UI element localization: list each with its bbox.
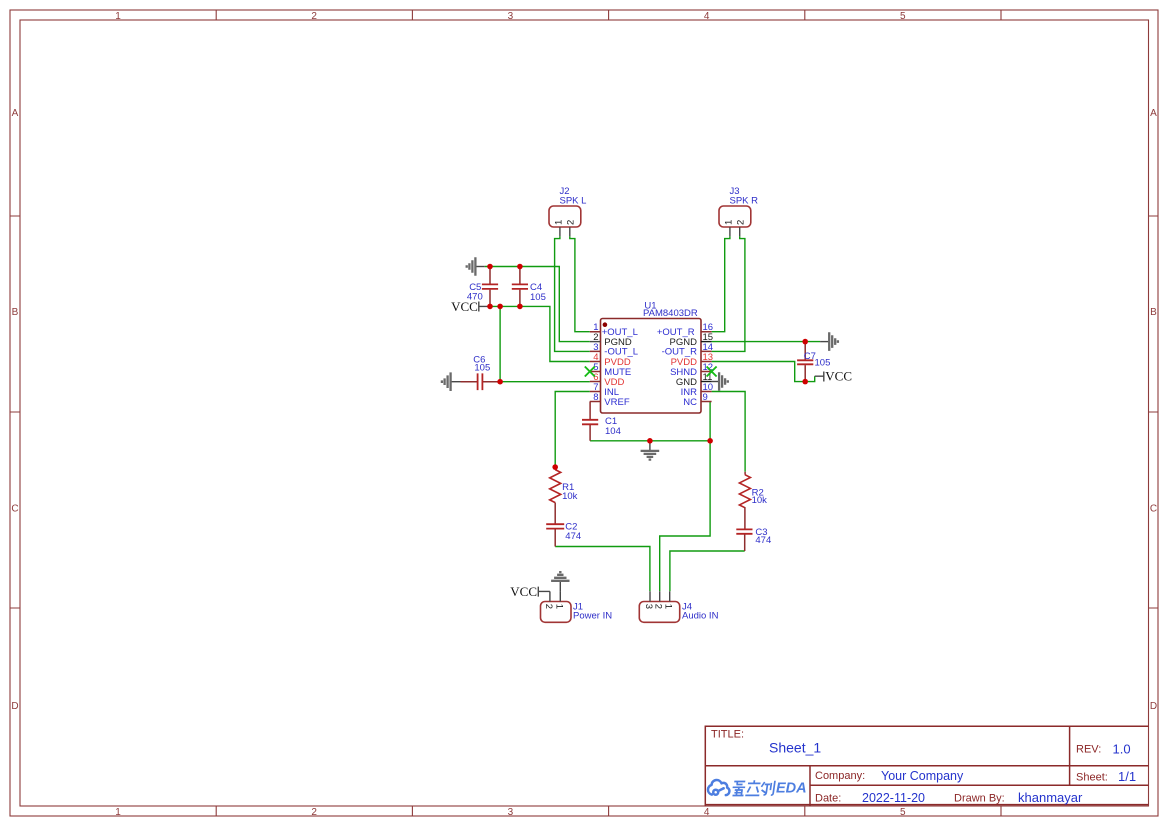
title block logo cell divider <box>809 766 811 807</box>
svg-text:Date:: Date: <box>815 792 841 804</box>
svg-text:9: 9 <box>703 392 708 403</box>
svg-text:NC: NC <box>683 397 697 408</box>
junction C4 top <box>517 264 523 270</box>
VCC port at J1 <box>510 584 550 599</box>
svg-text:8: 8 <box>593 392 598 403</box>
svg-text:105: 105 <box>815 358 831 369</box>
svg-text:2022-11-20: 2022-11-20 <box>862 791 925 805</box>
wire C1 bottom gnd net <box>590 440 710 442</box>
svg-text:105: 105 <box>530 292 546 303</box>
svg-text:2: 2 <box>566 220 577 225</box>
VCC port left <box>451 299 490 314</box>
ground top-left (pointing left) <box>467 257 485 276</box>
svg-text:10k: 10k <box>562 491 578 502</box>
J3 pin 2 stub <box>739 227 741 236</box>
svg-text:105: 105 <box>474 363 490 374</box>
capacitor C4 <box>512 267 546 307</box>
wire J2 pin2 to pin1 +OUT_L <box>570 236 590 331</box>
svg-text:VCC: VCC <box>825 369 852 384</box>
svg-text:D: D <box>11 701 18 712</box>
wire pin15 PGND to gnd right <box>712 341 821 343</box>
svg-text:REV:: REV: <box>1076 744 1101 756</box>
junction C7 bottom <box>802 379 808 385</box>
svg-text:C: C <box>11 504 18 515</box>
wire J3 pin2 to pin14 -OUT_R <box>712 236 745 351</box>
J2 body <box>549 206 581 227</box>
svg-text:474: 474 <box>755 535 771 546</box>
capacitor C7 <box>797 342 830 382</box>
ground below C1 (pointing down) <box>641 441 660 460</box>
J3 body <box>719 206 751 227</box>
IC U1 PAM8403DR <box>585 300 717 413</box>
wire VCC rail to pin4 PVDD <box>490 306 590 361</box>
U1 pin5 no-connect X <box>585 367 595 377</box>
U1 pin2 stub (black) <box>590 341 601 343</box>
logo JLCEDA cloud icon <box>708 780 729 795</box>
svg-text:3: 3 <box>508 807 514 818</box>
svg-text:Sheet:: Sheet: <box>1076 772 1108 784</box>
wire C6 node to pin6 VDD <box>500 381 590 383</box>
junction VCC-C6 branch <box>497 304 503 310</box>
svg-text:SPK R: SPK R <box>730 195 759 206</box>
svg-text:10k: 10k <box>752 495 768 506</box>
J2 pin 1 stub <box>559 227 561 236</box>
connector J1 Power IN <box>541 591 613 622</box>
svg-text:A: A <box>1150 108 1157 119</box>
junction C7 top <box>802 339 808 345</box>
svg-text:1: 1 <box>723 220 734 225</box>
junction gnd net below C1 <box>647 438 653 444</box>
J1 body <box>541 602 572 623</box>
capacitor C5 <box>467 267 498 307</box>
J4 pin 3 stub <box>649 591 651 601</box>
title block REV column divider <box>1069 726 1071 785</box>
logo text 嘉立创 (approximated glyph strokes) <box>731 780 775 795</box>
junction C6 node <box>497 379 503 385</box>
svg-text:B: B <box>1150 307 1157 318</box>
J4 pin 2 stub <box>659 591 661 601</box>
wire J2 pin1 to pin3 -OUT_L <box>555 236 590 351</box>
svg-text:1: 1 <box>663 604 674 609</box>
svg-text:2: 2 <box>543 604 554 609</box>
svg-text:B: B <box>12 307 19 318</box>
capacitor C3 <box>736 527 771 551</box>
junction R1 top <box>552 464 558 470</box>
wire gnd rail top-left to pin2 PGND <box>485 267 590 342</box>
ground at C6 (pointing left) <box>442 372 461 391</box>
J1 pin 1 stub <box>559 591 561 601</box>
svg-text:4: 4 <box>704 807 710 818</box>
svg-text:SPK L: SPK L <box>560 195 587 206</box>
svg-text:Drawn By:: Drawn By: <box>954 792 1005 804</box>
U1 left pin stubs <box>590 332 601 402</box>
J2 pin 2 stub <box>569 227 571 236</box>
U1 body <box>601 319 702 414</box>
J4 body <box>639 602 679 623</box>
svg-text:2: 2 <box>311 11 317 22</box>
capacitor C2 <box>546 522 581 547</box>
wire C3 bottom to J4 pin1 <box>670 551 745 591</box>
svg-text:EDA: EDA <box>776 781 807 797</box>
capacitor C1 <box>582 402 621 441</box>
svg-text:1: 1 <box>553 220 564 225</box>
column ticks top <box>216 10 1001 20</box>
svg-text:A: A <box>12 108 19 119</box>
svg-text:Audio IN: Audio IN <box>682 611 719 622</box>
wire pin10 INR down to R2 <box>712 392 746 472</box>
connector J3 SPK R <box>719 186 758 236</box>
wire VCC rail to C6 node <box>499 306 501 381</box>
junction dots <box>487 264 808 470</box>
svg-text:1: 1 <box>553 604 564 609</box>
title block bottom line <box>705 804 1148 806</box>
resistor R1 <box>550 467 578 523</box>
wire J3 pin1 to pin16 +OUT_R <box>712 236 730 331</box>
svg-text:VCC: VCC <box>510 584 537 599</box>
svg-text:Company:: Company: <box>815 770 865 782</box>
svg-text:5: 5 <box>900 807 906 818</box>
svg-text:1/1: 1/1 <box>1118 769 1136 784</box>
svg-text:474: 474 <box>565 531 581 542</box>
junction gnd net pin9 <box>707 438 713 444</box>
ground right of pin11 (pointing right) <box>712 372 728 391</box>
wire pin7 INL down to R1 <box>555 392 590 468</box>
title block divider under TITLE row <box>705 765 1148 767</box>
svg-text:C: C <box>1150 504 1157 515</box>
svg-text:VREF: VREF <box>604 397 630 408</box>
J4 pin 1 stub <box>669 591 671 601</box>
svg-text:1: 1 <box>115 807 121 818</box>
svg-text:TITLE:: TITLE: <box>711 729 744 741</box>
row ticks right <box>1149 216 1159 608</box>
svg-text:1.0: 1.0 <box>1113 742 1131 757</box>
svg-text:3: 3 <box>643 604 654 609</box>
capacitor C6 <box>461 354 501 390</box>
row ticks left <box>10 216 20 608</box>
title block divider company/date <box>810 784 1149 786</box>
svg-text:3: 3 <box>508 11 514 22</box>
svg-text:5: 5 <box>900 11 906 22</box>
U1 right pin stubs <box>701 332 712 402</box>
svg-text:2: 2 <box>653 604 664 609</box>
svg-text:2: 2 <box>736 220 747 225</box>
ground above J1 pin1 (pointing up) <box>551 572 569 591</box>
svg-text:1: 1 <box>115 11 121 22</box>
wire J4 pin2 up to gnd net <box>660 441 710 592</box>
U1 pin12 no-connect X <box>707 367 717 377</box>
svg-text:PAM8403DR: PAM8403DR <box>643 308 698 319</box>
wire pin9 NC down to gnd net <box>709 402 711 441</box>
U1 pin15 stub (black) <box>701 341 712 343</box>
U1 pin1 marker dot <box>603 322 608 327</box>
column ticks bottom <box>216 806 1001 816</box>
ground right top at pin15 net (pointing right) <box>820 332 838 351</box>
svg-text:khanmayar: khanmayar <box>1018 790 1083 805</box>
J3 pin 1 stub <box>729 227 731 236</box>
wire C2 bottom to J4 pin3 <box>555 547 650 592</box>
svg-text:104: 104 <box>605 426 621 437</box>
J1 pin 2 stub <box>549 591 551 601</box>
wire pin13 PVDD to VCC right <box>712 362 815 382</box>
junction C5 top <box>487 264 493 270</box>
TITLEBLOCK <box>705 726 1148 806</box>
resistor R2 <box>739 472 767 529</box>
title block outline <box>705 726 1148 806</box>
U1 pin11 stub (black) <box>701 381 712 383</box>
junction C4 bottom <box>517 304 523 310</box>
svg-text:Power IN: Power IN <box>573 611 612 622</box>
svg-text:Sheet_1: Sheet_1 <box>769 740 821 756</box>
connector J2 SPK L <box>549 186 586 236</box>
VCC port right <box>815 369 852 384</box>
svg-text:VCC: VCC <box>451 299 478 314</box>
SCHEMATIC <box>442 186 852 622</box>
svg-text:4: 4 <box>704 11 710 22</box>
connector J4 Audio IN <box>639 591 718 622</box>
svg-text:2: 2 <box>311 807 317 818</box>
svg-text:Your Company: Your Company <box>881 769 964 783</box>
svg-text:D: D <box>1150 701 1157 712</box>
junction C5 bottom <box>487 304 493 310</box>
